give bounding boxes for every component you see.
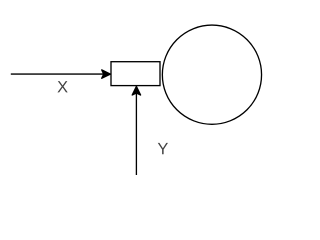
- wire X arrow shaft: [11, 73, 104, 75]
- process box: [111, 62, 160, 86]
- X arrowhead: [102, 70, 111, 78]
- Y arrowhead: [132, 86, 140, 95]
- node X label: [57, 81, 67, 92]
- wire Y arrow shaft: [135, 93, 137, 175]
- circle (state bubble): [162, 25, 261, 124]
- node Y label: [158, 143, 168, 154]
